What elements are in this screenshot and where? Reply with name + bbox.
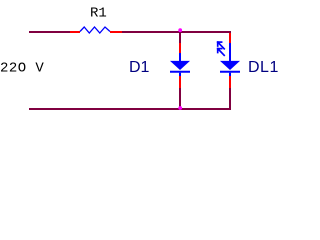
svg-text:22O V: 22O V — [0, 60, 44, 76]
svg-text:D1: D1 — [129, 59, 150, 76]
svg-text:R1: R1 — [90, 5, 107, 21]
svg-text:DL1: DL1 — [248, 59, 279, 76]
